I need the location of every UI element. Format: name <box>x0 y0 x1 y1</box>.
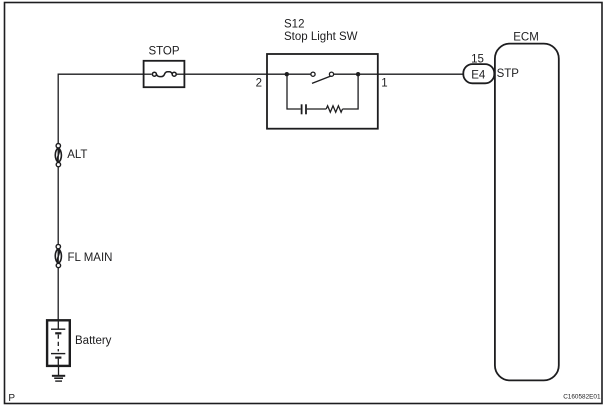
capacitor plate <box>301 104 303 114</box>
switch S12 box <box>267 54 378 129</box>
ECM <box>495 44 559 381</box>
switch contact <box>311 72 315 76</box>
wire <box>144 73 152 75</box>
battery <box>47 320 70 366</box>
wire <box>267 73 311 75</box>
svg-text:S12: S12 <box>284 19 304 31</box>
node junction right <box>356 72 360 76</box>
fuse element <box>156 72 172 77</box>
wire dashed <box>57 335 59 352</box>
resistor <box>326 106 342 112</box>
svg-text:E4: E4 <box>471 69 486 81</box>
fusible link FL MAIN <box>55 244 61 267</box>
wire <box>57 359 59 365</box>
node junction left <box>285 72 289 76</box>
ground <box>52 376 65 381</box>
svg-text:2: 2 <box>256 78 262 90</box>
wire <box>307 108 326 110</box>
capacitor plate <box>305 104 307 114</box>
wire: main horizontal feed from battery branch to ECM connector <box>58 74 463 320</box>
svg-text:STOP: STOP <box>148 46 179 58</box>
svg-text:FL MAIN: FL MAIN <box>68 252 113 264</box>
svg-text:Stop Light SW: Stop Light SW <box>284 31 358 43</box>
svg-text:ALT: ALT <box>67 149 87 161</box>
wire <box>57 322 59 330</box>
fusible link ALT <box>55 144 61 167</box>
svg-text:15: 15 <box>471 54 484 66</box>
wire <box>176 73 185 75</box>
connector E4 <box>463 64 494 83</box>
switch blade <box>312 76 331 83</box>
fuse STOP box <box>144 61 185 87</box>
wire to ground <box>58 366 60 375</box>
svg-text:1: 1 <box>381 77 387 89</box>
svg-text:Battery: Battery <box>75 335 112 347</box>
cell plate long <box>51 328 65 330</box>
cell plate short <box>55 357 61 359</box>
svg-text:STP: STP <box>497 68 520 80</box>
switch contact <box>329 72 333 76</box>
wire branch <box>287 74 301 109</box>
svg-text:C160582E01: C160582E01 <box>563 393 601 400</box>
svg-text:P: P <box>8 393 15 404</box>
cell plate long <box>51 353 65 355</box>
cell plate short <box>55 332 61 334</box>
wire branch <box>343 74 359 109</box>
svg-text:ECM: ECM <box>513 32 539 44</box>
wire <box>334 73 378 75</box>
